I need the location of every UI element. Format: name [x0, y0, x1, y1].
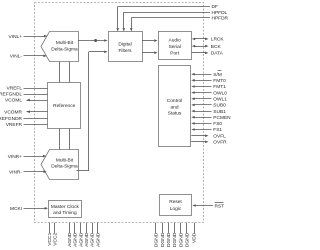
svg-text:VREFL: VREFL [7, 86, 23, 92]
svg-text:DGND: DGND [172, 232, 178, 247]
pin VINL+ input [9, 34, 48, 40]
svg-text:RST: RST [215, 203, 225, 209]
svg-text:Delta-Sigma: Delta-Sigma [51, 46, 78, 52]
svg-text:and Timing: and Timing [53, 210, 77, 216]
svg-text:AGND: AGND [84, 232, 90, 247]
reset logic block [160, 195, 192, 216]
svg-text:DGND: DGND [185, 232, 191, 247]
wire: reference to right modulator (2 lines) [60, 129, 70, 150]
pin VINL- input [10, 54, 47, 60]
svg-text:Filters: Filters [118, 48, 132, 54]
svg-text:Audio: Audio [169, 38, 182, 44]
svg-text:VINR-: VINR- [9, 169, 22, 175]
pin AGND (bottom) [90, 223, 96, 247]
pin BCK bidirectional [192, 44, 222, 50]
pin MCKI input [10, 206, 48, 212]
wire: digital filters to audio serial port (lower) [142, 51, 158, 54]
svg-text:Master Clock: Master Clock [51, 204, 80, 210]
pin PCMEN input [191, 115, 231, 121]
svg-text:S/M: S/M [213, 72, 222, 78]
svg-text:DGND: DGND [160, 232, 166, 247]
pin VDD (bottom) [192, 223, 198, 243]
pin HPFDR input [130, 16, 229, 32]
pin DGND (bottom) [185, 223, 191, 248]
pin AGND (bottom) [73, 223, 79, 247]
digital filters block [109, 32, 143, 62]
pin SUB0 input [191, 103, 226, 109]
pin VINR- input [9, 169, 47, 175]
multi-bit delta-sigma modulator (right channel) [41, 150, 79, 180]
svg-text:AGND: AGND [95, 232, 101, 247]
pin DGND (bottom) [160, 223, 166, 248]
svg-text:VCOMR: VCOMR [4, 109, 22, 115]
svg-text:DF: DF [212, 4, 218, 10]
svg-text:VINL+: VINL+ [9, 34, 23, 40]
svg-text:DATA: DATA [211, 51, 224, 57]
svg-text:BCK: BCK [211, 44, 222, 50]
pin HPFDL input [123, 10, 228, 32]
svg-text:Reset: Reset [169, 199, 182, 205]
reference block [48, 83, 81, 129]
svg-text:Serial: Serial [169, 44, 181, 50]
svg-text:OWL0: OWL0 [213, 90, 227, 96]
pin REFGNDL [0, 92, 48, 98]
svg-text:OVFL: OVFL [213, 133, 226, 139]
pin VREFR [6, 122, 48, 128]
svg-text:OWL1: OWL1 [213, 97, 227, 103]
pin FMT0 input [191, 78, 226, 84]
pin RST-bar input [192, 203, 224, 210]
pin AGND (bottom) [78, 223, 84, 247]
pin DGND (bottom) [178, 223, 184, 248]
svg-text:LRCK: LRCK [211, 37, 225, 43]
svg-text:and: and [170, 104, 178, 110]
svg-text:MCKI: MCKI [10, 206, 22, 212]
svg-text:HPFDL: HPFDL [212, 10, 228, 16]
svg-text:Port: Port [170, 50, 179, 56]
pin VCC2 (bottom) [52, 223, 58, 246]
svg-text:AGND: AGND [67, 232, 73, 247]
pin DGND (bottom) [166, 223, 172, 248]
pin S/M-bar input [191, 71, 222, 78]
svg-text:OVFR: OVFR [213, 140, 227, 146]
wire: left modulator to reference (2 lines) [60, 62, 70, 83]
svg-text:AGND: AGND [78, 232, 84, 247]
pin REFGNDR [0, 116, 48, 122]
svg-text:VINL-: VINL- [10, 54, 23, 60]
svg-text:FS0: FS0 [213, 121, 222, 127]
svg-text:VDD: VDD [192, 232, 198, 243]
svg-text:AGND: AGND [90, 232, 96, 247]
pin FS0 input [191, 121, 222, 127]
svg-text:Reference: Reference [53, 103, 75, 109]
pin OVFR output [191, 140, 227, 146]
pin DGND (bottom) [172, 223, 178, 248]
svg-text:Control: Control [167, 98, 182, 104]
svg-text:Digital: Digital [118, 42, 131, 48]
multi-bit delta-sigma modulator (left channel) [41, 32, 79, 62]
master clock and timing block [49, 201, 82, 218]
pin VCC1 (bottom) [47, 223, 53, 246]
svg-text:Logic: Logic [170, 206, 182, 212]
svg-text:VREFR: VREFR [6, 122, 23, 128]
svg-text:REFGNDL: REFGNDL [0, 92, 22, 98]
svg-text:Delta-Sigma: Delta-Sigma [51, 164, 78, 170]
pin DF input [116, 4, 218, 31]
control and status block [159, 66, 191, 147]
wire: right modulator to digital filters [77, 51, 108, 171]
pin VREFL [7, 86, 48, 92]
svg-text:VCC1: VCC1 [47, 232, 53, 245]
svg-text:Status: Status [168, 111, 182, 117]
pin FS1 input [191, 127, 222, 133]
svg-text:DGND: DGND [154, 232, 160, 247]
wire: left modulator to digital filters [78, 39, 108, 42]
pin OVFL output [191, 133, 226, 139]
svg-text:VCC2: VCC2 [52, 232, 58, 245]
svg-text:FMT1: FMT1 [213, 84, 226, 90]
pin AGND (bottom) [84, 223, 90, 247]
svg-text:VCOML: VCOML [5, 98, 22, 104]
svg-text:DGND: DGND [178, 232, 184, 247]
pin SUB1 input [191, 109, 226, 115]
pin VCOMR output [4, 109, 48, 115]
pin OWL1 input [191, 97, 227, 103]
svg-text:SUB0: SUB0 [213, 103, 226, 109]
chip boundary (dashed) [35, 3, 204, 223]
svg-text:DGND: DGND [166, 232, 172, 247]
junction node on left modulator output [94, 39, 97, 42]
svg-text:HPFDR: HPFDR [212, 16, 229, 22]
pin DGND (bottom) [154, 223, 160, 248]
pin VINR+ input [8, 154, 47, 160]
svg-text:FMT0: FMT0 [213, 78, 226, 84]
svg-text:Multi-Bit: Multi-Bit [56, 157, 74, 163]
svg-text:PCMEN: PCMEN [213, 115, 231, 121]
svg-text:FS1: FS1 [213, 127, 222, 133]
pin VCOML output [5, 98, 48, 104]
pin AGND (bottom) [67, 223, 73, 247]
svg-text:AGND: AGND [73, 232, 79, 247]
audio serial port block [159, 32, 192, 60]
pin DATA output [192, 51, 224, 57]
pin AGND (bottom) [95, 223, 101, 247]
pin FMT1 input [191, 84, 226, 90]
svg-text:Multi-Bit: Multi-Bit [56, 40, 74, 46]
pin OWL0 input [191, 90, 227, 96]
svg-text:VINR+: VINR+ [8, 154, 22, 160]
pin LRCK bidirectional [192, 37, 225, 43]
svg-text:SUB1: SUB1 [213, 109, 226, 115]
wire: digital filters to audio serial port (upper) [142, 39, 158, 42]
svg-text:REFGNDR: REFGNDR [0, 116, 23, 122]
